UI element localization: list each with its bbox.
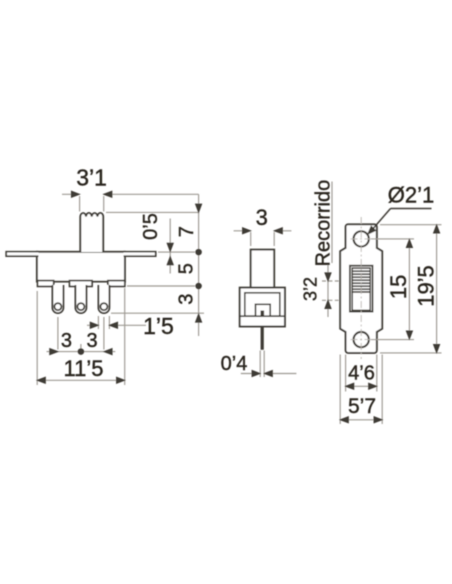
left mounting flange (6, 252, 38, 257)
pin (side view) (261, 327, 264, 350)
switch body (side view) (240, 288, 285, 327)
svg-text:0’4: 0’4 (221, 353, 248, 375)
hole bottom centre extension line (371, 339, 414, 341)
svg-text:11’5: 11’5 (64, 356, 104, 381)
arrow 1'5 left (90, 322, 98, 328)
svg-text:5’7: 5’7 (348, 395, 376, 418)
slider knob lower part (top view) (352, 292, 370, 310)
mounting plate outline (top view) (340, 224, 382, 353)
hole top centre extension line (371, 238, 414, 240)
mounting hole bottom (354, 332, 369, 347)
pin 1 (52, 285, 63, 313)
svg-text:5: 5 (175, 263, 197, 274)
arrow 4'6 left (346, 383, 354, 389)
actuator top extension line (106, 211, 199, 213)
dim 15 dimension line (408, 239, 410, 340)
svg-text:Ø2’1: Ø2’1 (388, 183, 434, 208)
right mounting flange (124, 252, 156, 257)
actuator lever (side view) (251, 250, 275, 288)
arrow 15 bottom (406, 331, 412, 339)
diameter text underline (391, 208, 432, 210)
pin 3 hole (100, 303, 107, 310)
svg-text:3: 3 (86, 330, 97, 352)
dim 11'5 dimension line (37, 379, 125, 381)
arrow 3'2 lower (325, 300, 331, 308)
pin bottom extension line (111, 312, 204, 314)
travel dimension line (3'2) (327, 263, 329, 317)
contact housing box (side view) (256, 304, 271, 316)
arrow diameter leader (368, 226, 376, 234)
hole top centreline tick (351, 238, 373, 240)
Recorrido underline (331, 182, 333, 264)
diameter leader line (371, 209, 391, 232)
flange top extension line (158, 251, 195, 253)
travel lower dashed line (322, 299, 350, 301)
arrow 0'5 lower (167, 257, 173, 265)
arrow 11'5 right (117, 377, 125, 383)
arrow 5'7 right (374, 417, 382, 423)
dim 3'1 extension lines (79, 196, 81, 212)
mounting hole top (354, 231, 369, 246)
pin 2 hole (77, 303, 84, 310)
dim 0'5 dimension line (169, 219, 171, 274)
arrow 4'6 right (369, 383, 377, 389)
svg-text:3: 3 (256, 205, 268, 230)
hole bottom centreline tick (351, 339, 373, 341)
dim 4'6 extension lines (345, 355, 347, 392)
pin 3 (98, 285, 109, 313)
dim 5'7 dimension line (340, 419, 382, 421)
svg-text:3’2: 3’2 (301, 277, 321, 301)
dim 5'7 extension lines (339, 355, 341, 425)
chain dot body bottom (196, 283, 202, 289)
arrow 0'4 left (252, 370, 260, 376)
dim 1'5 extension lines (97, 316, 99, 329)
bottom lug centre (70, 281, 93, 287)
arrow 15 top (406, 239, 412, 247)
dim 0'4 dimension line (241, 373, 260, 375)
switch body (front view) (37, 252, 125, 282)
slider knob serrated grip (top view) (352, 268, 370, 292)
arrow 0'4 right (264, 370, 272, 376)
arrow 3 left (243, 228, 251, 234)
knob serration lines (353, 271, 370, 289)
dim 3 extension lines (250, 232, 252, 246)
contact nub (side view) (261, 311, 265, 317)
arrow 1'5 right (109, 322, 117, 328)
pin 1 hole (54, 303, 61, 310)
arrow chain bottom (3) (196, 314, 202, 322)
svg-text:19’5: 19’5 (413, 265, 438, 307)
dim 3'1 dimension line (62, 193, 80, 195)
arrow 11'5 left (37, 377, 45, 383)
arrow 3-3 left (50, 349, 58, 355)
arrow 0'5 upper (167, 243, 173, 251)
svg-text:Recorrido: Recorrido (313, 180, 335, 267)
travel upper dashed line (322, 280, 350, 282)
arrow 3-3 right (104, 349, 112, 355)
arrow 19'5 top (434, 225, 440, 233)
dim 11'5 extension lines (36, 291, 38, 385)
dim 0'4 extension lines (259, 351, 261, 378)
chain dot flange (196, 249, 202, 255)
svg-text:1’5: 1’5 (143, 313, 174, 339)
arrow 3'1 left (71, 191, 79, 197)
dim 4'6 dimension line (346, 385, 377, 387)
base plate line (side view) (240, 315, 285, 317)
body bottom extension line (127, 285, 195, 287)
svg-text:15: 15 (386, 275, 411, 299)
svg-text:7: 7 (176, 226, 198, 237)
right chain dimension line (198, 194, 200, 336)
svg-text:0’5: 0’5 (140, 213, 162, 240)
svg-text:3: 3 (175, 294, 197, 305)
arrow 3 right (274, 228, 282, 234)
plate top extension line (380, 224, 442, 226)
slider opening (top view) (350, 266, 373, 312)
pin centre extension lines (57, 317, 59, 350)
vertical centreline (360, 217, 362, 359)
arrow 19'5 bottom (434, 345, 440, 353)
arrow 3'2 upper (325, 273, 331, 281)
svg-text:4’6: 4’6 (348, 363, 375, 385)
dim 1'5 dimension line (87, 324, 98, 326)
arrow chain top (7) (196, 204, 202, 212)
dot 3-3 centre (78, 349, 84, 355)
arrow 3'1 right (104, 191, 112, 197)
dim 3 dimension line (234, 230, 251, 232)
dim 19'5 dimension line (436, 225, 438, 353)
arrow 5'7 left (340, 417, 348, 423)
bottom lug left (38, 281, 54, 287)
pin 2 (75, 285, 86, 313)
dim 3-3 dimension line (47, 351, 116, 353)
svg-text:3’1: 3’1 (76, 165, 107, 191)
bottom lug right (108, 281, 125, 287)
plate bottom extension line (380, 352, 442, 354)
svg-text:3: 3 (61, 330, 72, 352)
body inner wall (side view) (245, 293, 280, 316)
actuator lever (front view) with serrated top (80, 213, 103, 252)
